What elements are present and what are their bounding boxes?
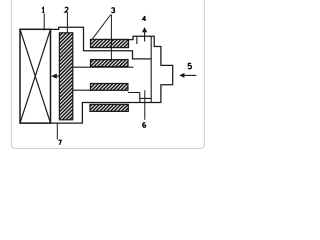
page background [0,0,207,158]
label 3 [112,8,115,13]
leader line 2 [66,13,68,36]
channel wall lower (from plate 2, under tube B3) [73,89,91,91]
leader line 1 [43,14,45,31]
label 6 [143,123,146,128]
label 5 [188,63,191,68]
head bore right wall (long inner wall) [150,36,152,102]
label 7 [58,140,61,145]
tube wall 3 second (hatched bar B2) [91,60,129,67]
leader line 6 [144,90,146,120]
flow arrow into plate 2 (points left) [51,74,57,79]
channel wall upper (from plate 2, under tube B2) [73,66,134,68]
tube wall fourth (hatched bar B4) [90,104,128,111]
tube wall 3 top (hatched bar B1) [91,39,129,47]
label 4 [143,16,146,21]
tube wall third (hatched bar B3) [91,84,128,91]
housing outline bottom and head outer profile (continuous) [20,36,173,123]
arrow 4 (flow up out of head) [142,27,147,32]
label 1 [42,7,44,12]
arrow 5 (flow into socket from right) [179,73,184,78]
inner step under head [128,93,151,103]
fan/motor box 1 (rectangle with X brace) [20,29,51,123]
leader line 7 [56,123,58,139]
head bore left wall [136,36,138,44]
leader line 3b (vertical to second tube) [110,15,112,62]
leader line 3a (diagonal to top tube) [93,15,111,39]
plate 2 (vertical hatched bar) [59,33,72,120]
label 2 [65,7,68,12]
housing outline top (with step, into upper channel) [51,27,152,59]
